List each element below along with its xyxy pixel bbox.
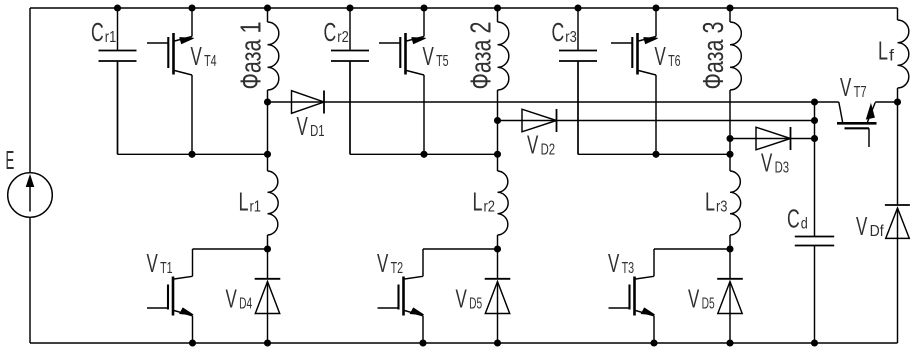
wire Cr1 top lead xyxy=(117,8,119,51)
label VD5 xyxy=(456,284,483,314)
node bottom block 1 xyxy=(264,246,270,252)
svg-text:V: V xyxy=(608,248,620,278)
capacitor Cr1 xyxy=(99,51,137,62)
junction mid rail / VT5 xyxy=(421,151,427,157)
svg-text:E: E xyxy=(6,145,15,175)
capacitor Cr2 xyxy=(331,51,369,62)
svg-text:C: C xyxy=(552,17,565,47)
label VT6 xyxy=(655,41,681,71)
inductor phase winding 2 xyxy=(498,22,509,90)
svg-text:L: L xyxy=(705,187,715,217)
svg-text:V: V xyxy=(840,72,852,102)
transistor VT6 (upper IGBT) xyxy=(611,33,658,75)
wire rail from VD2 xyxy=(498,120,815,122)
wire left branch lower xyxy=(29,217,31,343)
svg-text:L: L xyxy=(239,187,249,217)
wire Cr2 bottom lead xyxy=(349,61,351,154)
junction top rail / VT6 xyxy=(653,5,659,11)
svg-text:T5: T5 xyxy=(436,53,449,70)
junction bottom rail / VD5 xyxy=(494,340,500,346)
wire VT3 collector link xyxy=(654,249,730,276)
node phase 3 diode tap xyxy=(727,135,733,141)
label VDf xyxy=(856,211,884,241)
junction mid rail / phase column 2 xyxy=(494,151,500,157)
svg-text:r1: r1 xyxy=(105,29,117,46)
capacitor Cd xyxy=(795,237,834,246)
wire VT2 collector link xyxy=(423,249,498,276)
wire Lr3 bottom lead xyxy=(729,235,731,249)
label VD5 xyxy=(688,284,715,314)
wire VT2 emitter lead xyxy=(422,316,424,343)
label VT7 xyxy=(840,72,867,102)
label VT3 xyxy=(608,248,634,278)
inductor phase winding 1 xyxy=(268,22,279,90)
svg-text:V: V xyxy=(655,41,667,71)
svg-text:V: V xyxy=(377,248,389,278)
svg-text:T6: T6 xyxy=(668,53,681,70)
svg-text:d: d xyxy=(801,216,808,233)
label Lr2 xyxy=(473,187,496,217)
wire phase 3 lead to Lr xyxy=(729,154,731,171)
svg-text:T1: T1 xyxy=(160,260,173,277)
wire phase 1 lead to diode tap xyxy=(267,90,269,102)
node bottom block 3 xyxy=(727,246,733,252)
junction rail C / Cd branch xyxy=(811,135,817,141)
svg-text:V: V xyxy=(761,148,773,178)
wire VDf anode lead xyxy=(897,238,899,343)
svg-text:T3: T3 xyxy=(622,260,635,277)
wire Cr2 top lead xyxy=(349,8,351,51)
diode VD5 (vertical) xyxy=(717,279,743,314)
label E xyxy=(6,145,15,175)
junction bottom rail / VT2 xyxy=(420,340,426,346)
wire Cd branch lower xyxy=(814,246,816,344)
wire Cr1 bottom lead xyxy=(117,61,119,154)
node phase 2 diode tap xyxy=(494,117,500,123)
inductor Lr2 xyxy=(498,171,509,235)
svg-text:C: C xyxy=(324,17,337,47)
svg-text:V: V xyxy=(527,130,539,160)
label VT4 xyxy=(191,41,217,71)
wire VD5 cathode lead xyxy=(729,249,731,279)
svg-text:D3: D3 xyxy=(775,160,790,177)
junction rail A / Cd branch xyxy=(811,99,817,105)
label Фаза 1 xyxy=(236,22,268,90)
wire VT4 emitter lead xyxy=(191,75,193,154)
wire left branch upper xyxy=(29,8,31,173)
label VT5 xyxy=(423,41,449,71)
diode VD4 (vertical) xyxy=(255,279,281,314)
junction top rail / Cr1 xyxy=(114,5,120,11)
svg-text:C: C xyxy=(787,204,800,234)
wire VT4 collector lead xyxy=(191,8,193,37)
wire VT5 emitter lead xyxy=(423,75,425,154)
wire VT6 emitter lead xyxy=(655,75,657,154)
junction top rail / phase column 1 xyxy=(264,5,270,11)
wire mid rail phase 1 xyxy=(118,62,268,154)
node bottom block 2 xyxy=(494,246,500,252)
junction top rail / phase column 2 xyxy=(494,5,500,11)
svg-text:Фаза 2: Фаза 2 xyxy=(466,22,498,90)
wire Lr2 bottom lead xyxy=(497,235,499,249)
junction top rail / VT5 xyxy=(421,5,427,11)
junction bottom rail / VD5 xyxy=(727,340,733,346)
wire phase 2 lead to Lr xyxy=(497,154,499,171)
label Фаза 3 xyxy=(698,22,730,90)
wire phase 1 lead to Lr xyxy=(267,154,269,171)
node right column / VT7 xyxy=(894,99,900,105)
junction top rail / phase column 3 xyxy=(727,5,733,11)
label Cd xyxy=(787,204,808,234)
svg-text:V: V xyxy=(191,41,203,71)
junction mid rail / phase column 3 xyxy=(727,151,733,157)
wire rail from VD1 to VT7 xyxy=(268,101,839,103)
junction top rail / VT4 xyxy=(189,5,195,11)
svg-text:D5: D5 xyxy=(469,296,482,313)
wire VD4 cathode lead xyxy=(267,249,269,279)
svg-text:V: V xyxy=(226,284,238,314)
wire VD4 anode lead xyxy=(267,314,269,344)
label Lf xyxy=(878,36,895,66)
wire phase 1 upper lead xyxy=(267,8,269,22)
inductor Lr1 xyxy=(268,171,279,235)
junction mid rail / VT4 xyxy=(189,151,195,157)
diode VD2 (horizontal) xyxy=(522,109,557,132)
wire phase 3 lead to diode tap xyxy=(729,90,731,139)
transistor VT7 (horizontal IGBT) xyxy=(837,102,877,147)
svg-text:D4: D4 xyxy=(239,296,252,313)
wire VT1 emitter lead xyxy=(192,316,194,343)
wire top rail xyxy=(30,7,898,9)
wire VT3 emitter lead xyxy=(653,316,655,343)
svg-text:V: V xyxy=(856,211,868,241)
label Cr1 xyxy=(91,17,116,47)
svg-text:C: C xyxy=(91,17,104,47)
label Lr3 xyxy=(705,187,728,217)
svg-text:r2: r2 xyxy=(337,29,349,46)
wire rail from VD3 xyxy=(730,138,815,140)
wire mid rail phase 3 xyxy=(578,62,730,154)
diode VD5 (vertical) xyxy=(485,279,511,314)
svg-text:V: V xyxy=(456,284,468,314)
wire VT5 collector lead xyxy=(423,8,425,37)
wire VD5 cathode lead xyxy=(497,249,499,279)
wire right column top lead xyxy=(897,8,899,20)
transistor VT5 (upper IGBT) xyxy=(379,33,426,75)
diode VD1 (horizontal) xyxy=(292,91,325,114)
label VT1 xyxy=(147,248,173,278)
wire Cr3 top lead xyxy=(577,8,579,51)
wire right column mid lead xyxy=(897,102,899,205)
inductor phase winding 3 xyxy=(730,22,741,90)
svg-text:D1: D1 xyxy=(310,123,325,140)
svg-text:D2: D2 xyxy=(541,142,556,159)
svg-text:D5: D5 xyxy=(702,296,715,313)
diode VD3 (horizontal) xyxy=(756,127,791,150)
svg-text:r3: r3 xyxy=(565,29,577,46)
svg-text:Фаза 1: Фаза 1 xyxy=(236,22,268,90)
wire mid rail phase 2 xyxy=(350,62,498,154)
label Cr3 xyxy=(552,17,577,47)
svg-text:T2: T2 xyxy=(391,260,404,277)
wire Cr3 bottom lead xyxy=(577,61,579,154)
wire phase 1 lead to mid rail xyxy=(267,102,269,154)
svg-text:Фаза 3: Фаза 3 xyxy=(698,22,730,90)
svg-text:T4: T4 xyxy=(204,53,217,70)
junction top rail / Cr2 xyxy=(347,5,353,11)
junction bottom rail / VD4 xyxy=(264,340,270,346)
wire VT6 collector lead xyxy=(655,8,657,37)
wire VT1 collector link xyxy=(193,249,268,276)
inductor Lr3 xyxy=(730,171,741,235)
wire VT7 to right node xyxy=(875,101,897,103)
label Фаза 2 xyxy=(466,22,498,90)
svg-text:V: V xyxy=(688,284,700,314)
svg-text:V: V xyxy=(147,248,159,278)
label VD4 xyxy=(226,284,253,314)
diode VDf xyxy=(885,205,910,238)
svg-text:T7: T7 xyxy=(854,84,867,101)
label Cr2 xyxy=(324,17,349,47)
transistor VT3 (lower IGBT) xyxy=(609,276,655,316)
wire VD5 anode lead xyxy=(729,314,731,344)
junction bottom rail / VT1 xyxy=(189,340,195,346)
svg-text:L: L xyxy=(878,36,888,66)
transistor VT2 (lower IGBT) xyxy=(378,276,424,316)
junction top rail / Cr3 xyxy=(575,5,581,11)
wire Cd branch upper xyxy=(814,102,816,237)
svg-text:V: V xyxy=(297,111,309,141)
svg-text:Df: Df xyxy=(870,223,884,240)
svg-text:r2: r2 xyxy=(484,199,496,216)
label VD3 xyxy=(761,148,789,178)
wire phase 3 upper lead xyxy=(729,8,731,22)
transistor VT1 (lower IGBT) xyxy=(147,276,193,316)
inductor Lf xyxy=(898,20,909,88)
junction mid rail / VT6 xyxy=(653,151,659,157)
svg-text:L: L xyxy=(473,187,483,217)
junction bottom rail / Cd xyxy=(811,340,817,346)
junction rail B / Cd branch xyxy=(811,117,817,123)
svg-text:V: V xyxy=(423,41,435,71)
wire VD5 anode lead xyxy=(497,314,499,344)
label VD2 xyxy=(527,130,555,160)
wire Lr1 bottom lead xyxy=(267,235,269,249)
svg-text:f: f xyxy=(889,48,895,65)
junction bottom rail / VT3 xyxy=(651,340,657,346)
voltage source E xyxy=(8,173,53,218)
transistor VT4 (upper IGBT) xyxy=(147,33,194,75)
label VT2 xyxy=(377,248,403,278)
wire phase 2 lead to mid rail xyxy=(497,121,499,155)
label Lr1 xyxy=(239,187,262,217)
capacitor Cr3 xyxy=(559,51,597,62)
svg-text:r1: r1 xyxy=(250,199,262,216)
wire bottom rail xyxy=(30,342,898,344)
wire phase 2 lead to diode tap xyxy=(497,90,499,121)
wire phase 2 upper lead xyxy=(497,8,499,22)
label VD1 xyxy=(297,111,325,141)
wire Lf bottom lead xyxy=(897,88,899,102)
svg-text:r3: r3 xyxy=(716,199,728,216)
wire phase 3 lead to mid rail xyxy=(729,139,731,155)
junction mid rail / phase column 1 xyxy=(264,151,270,157)
node phase 1 diode tap xyxy=(264,99,270,105)
